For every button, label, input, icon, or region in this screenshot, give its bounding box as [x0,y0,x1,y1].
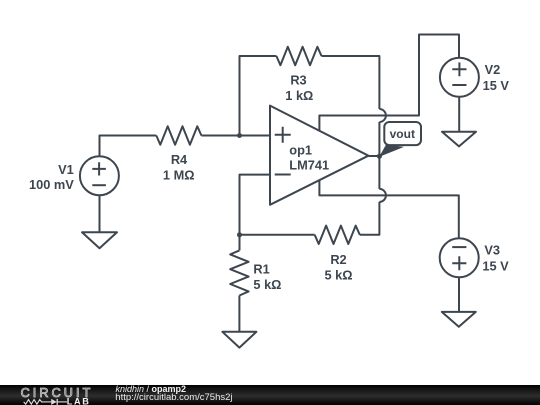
ground below V2 [442,132,476,147]
ground below R1 [222,332,256,348]
op-amp + input symbol [275,127,291,143]
svg-text:R1: R1 [253,261,269,276]
vout label tail [379,145,404,157]
node A junction dot [237,133,242,138]
wire hop to output node [378,122,380,156]
V1 plus symbol [92,162,106,175]
footer text [116,385,187,394]
svg-text:V3: V3 [484,243,500,258]
ground below V1 [82,232,117,248]
wire R1 to ground [238,296,240,332]
svg-text:15 V: 15 V [482,258,509,273]
wire V2 bottom to ground [458,97,460,132]
svg-text:R4: R4 [171,152,188,167]
wire hop down and left to R2 [360,202,380,235]
op-amp U1 op1 LM741 triangle [270,106,368,205]
wire output down to hop [378,156,380,189]
wire V1 bottom to ground [99,195,101,232]
V2 minus symbol [452,84,466,86]
wire V1 top to R4 [100,136,157,157]
wire node A up to R3 [240,56,277,136]
node B junction dot [237,232,242,237]
svg-text:LM741: LM741 [289,157,329,172]
resistor R3 [276,47,321,65]
svg-text:5 kΩ: 5 kΩ [324,267,352,282]
logo resistor symbol [24,399,46,404]
wire hop over V+ wire [379,109,386,122]
wire hop over V- wire [379,189,386,202]
wire node B to R2 [240,234,315,236]
svg-text:LAB: LAB [67,396,91,405]
svg-text:R2: R2 [330,252,346,267]
wire V3 bottom to ground [458,277,460,312]
CircuitLab logo [0,385,110,405]
node vout label box [384,122,421,145]
svg-text:1 MΩ: 1 MΩ [163,167,195,182]
resistor R1 [230,250,248,295]
V2 plus symbol [452,62,466,76]
node vout junction dot [377,154,382,159]
op-amp - input symbol [275,174,291,176]
wire node B down to R1 [239,235,241,251]
svg-text:100 mV: 100 mV [29,177,74,192]
svg-text:5 kΩ: 5 kΩ [253,277,281,292]
wire op-amp V+ pin to V2 [319,35,459,131]
svg-text:vout: vout [390,127,415,141]
svg-text:R3: R3 [290,73,306,88]
resistor R4 [156,126,201,144]
V3 minus symbol [452,246,466,248]
svg-text:op1: op1 [289,143,312,158]
svg-text:15 V: 15 V [483,78,510,93]
svg-text:V1: V1 [58,162,74,177]
wire op-amp V- pin to V3 [319,180,458,239]
voltage source V3 [440,238,479,277]
resistor R2 [315,226,360,244]
voltage source V2 [440,58,479,97]
logo diode symbol [46,400,52,402]
ground below V3 [442,312,476,327]
op-amp output stub [368,155,379,157]
svg-text:V2: V2 [485,62,501,77]
wire op-amp - input to node B [240,175,271,235]
wire R3 right, down to hop [322,56,380,109]
footer bar [0,385,540,405]
svg-text:1 kΩ: 1 kΩ [285,88,313,103]
V3 plus symbol [452,256,466,270]
voltage source V1 [80,156,119,195]
V1 minus symbol [92,184,106,186]
wire R4 to op-amp + input [201,135,270,137]
